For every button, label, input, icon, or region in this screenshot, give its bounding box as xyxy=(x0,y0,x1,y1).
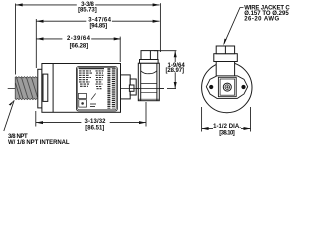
svg-text:3/8 NPT: 3/8 NPT xyxy=(8,134,28,140)
label on body xyxy=(77,67,118,112)
dimension 3-3/8 xyxy=(16,3,161,74)
svg-text:[86.51]: [86.51] xyxy=(85,125,104,131)
svg-text:W/ 1/8 NPT INTERNAL: W/ 1/8 NPT INTERNAL xyxy=(8,140,70,146)
svg-text:[28.97]: [28.97] xyxy=(165,68,184,74)
svg-text:26-20 AWG: 26-20 AWG xyxy=(244,17,279,23)
svg-text:[94.85]: [94.85] xyxy=(89,23,107,29)
center square inner xyxy=(220,79,235,95)
key tab on centerline xyxy=(129,85,134,91)
svg-text:[66.28]: [66.28] xyxy=(70,44,89,50)
body xyxy=(42,64,121,113)
flange face xyxy=(38,69,42,108)
center screw xyxy=(223,83,231,91)
thread 3/8 NPT xyxy=(15,77,38,100)
step2 xyxy=(130,79,136,95)
gland tube end view xyxy=(216,62,234,77)
body seam xyxy=(52,64,54,113)
leader 3/8 NPT xyxy=(4,100,14,131)
label text rows xyxy=(79,69,104,89)
gland top rect side view xyxy=(141,51,158,60)
svg-text:2-39/64: 2-39/64 xyxy=(67,36,91,42)
center square outer xyxy=(218,77,236,96)
gland top rect end view xyxy=(216,46,234,54)
screw dot right xyxy=(241,85,245,89)
dimension 1-1/2 DIA xyxy=(202,107,251,132)
svg-text:3-13/32: 3-13/32 xyxy=(85,119,107,125)
end view circle xyxy=(202,46,252,113)
dimension 2-39/64 xyxy=(37,37,121,62)
svg-text:[38.10]: [38.10] xyxy=(219,130,235,136)
centerline xyxy=(8,88,164,90)
leader wire jacket xyxy=(223,8,243,46)
screw dot left xyxy=(209,85,213,89)
label cert marks xyxy=(78,94,86,99)
dimension 3-47/64 xyxy=(36,19,159,68)
step1 xyxy=(121,75,131,99)
label barcode strip xyxy=(109,68,114,108)
centerline over steps xyxy=(121,88,165,90)
dimension 1-9/64 xyxy=(154,51,177,89)
dimension 3-13/32 xyxy=(36,102,146,127)
gland nut side view xyxy=(140,60,159,64)
svg-text:[85.73]: [85.73] xyxy=(78,8,97,14)
svg-text:1-1/2 DIA.: 1-1/2 DIA. xyxy=(213,124,241,130)
small rect on flange xyxy=(43,74,48,101)
gland nut end view xyxy=(214,54,238,62)
connector block xyxy=(138,63,159,100)
terminal plate octagon xyxy=(206,76,247,99)
